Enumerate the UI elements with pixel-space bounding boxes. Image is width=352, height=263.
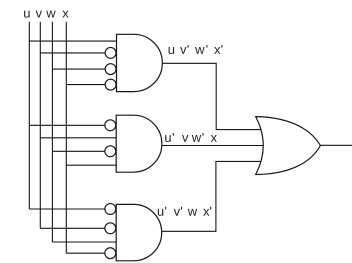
label U2 output v — [182, 135, 188, 142]
and-gate U1 — [117, 34, 163, 91]
label U2 output u — [165, 135, 171, 142]
wire u to U2 pin1 bubble — [29, 124, 106, 126]
input label w — [46, 11, 55, 18]
input label v — [36, 11, 42, 18]
label U3 output x prime — [210, 207, 211, 210]
label U2 output u prime — [173, 133, 174, 136]
label U1 output u — [169, 47, 175, 54]
label U3 output v prime — [181, 207, 182, 210]
bubble U2 pin1 — [105, 120, 116, 131]
net x vertical wire — [65, 22, 67, 254]
bubble U3 pin4 — [105, 248, 116, 259]
wire w to U1 pin3 bubble — [52, 68, 106, 70]
net u vertical wire — [28, 22, 30, 209]
label U3 output u prime — [165, 207, 166, 210]
label U2 output w prime — [202, 133, 203, 136]
wire x to U1 pin4 bubble — [66, 84, 106, 86]
wire U1 output to OR input 1 — [162, 63, 262, 129]
bubble U2 pin3 — [105, 146, 116, 157]
or-gate U4 — [256, 117, 321, 175]
label U3 output w — [188, 209, 197, 216]
wire w to U3 pin3 — [52, 241, 116, 243]
wire u to U1 pin1 — [29, 40, 116, 42]
label U3 output v — [174, 209, 180, 216]
wire U2 output to OR input 2 — [161, 145, 263, 147]
label U1 output x prime — [221, 45, 222, 48]
label U1 output w — [195, 47, 204, 54]
label U1 output x — [214, 47, 220, 54]
label U1 output v — [180, 47, 186, 54]
wire v to U3 pin2 bubble — [40, 227, 106, 229]
and-gate U3 — [116, 204, 162, 260]
wire v to U1 pin2 bubble — [40, 52, 106, 54]
label U3 output x — [203, 209, 209, 216]
bubble U1 pin3 — [105, 64, 116, 75]
wire v to U2 pin2 — [40, 137, 116, 139]
label U3 output u — [158, 209, 164, 216]
net v vertical wire — [39, 22, 41, 229]
wire x to U3 pin4 bubble — [66, 252, 106, 254]
label U2 output x — [211, 135, 217, 142]
wire U3 output to OR input 3 — [162, 161, 262, 231]
label U1 output w prime — [206, 45, 207, 48]
wire u to U3 pin1 bubble — [29, 208, 106, 210]
wire x to U2 pin4 — [66, 164, 116, 166]
bubble U3 pin1 — [105, 204, 116, 215]
input label x — [62, 11, 68, 18]
label U2 output w — [192, 135, 201, 142]
input label u — [24, 11, 30, 18]
and-gate U2 — [116, 115, 162, 172]
bubble U1 pin4 — [105, 79, 116, 90]
wire w to U2 pin3 bubble — [52, 150, 106, 152]
bubble U1 pin2 — [105, 47, 116, 58]
bubble U3 pin2 — [105, 223, 116, 234]
net w vertical wire — [51, 22, 53, 242]
wire OR output — [320, 144, 352, 146]
label U1 output v prime — [188, 45, 189, 48]
